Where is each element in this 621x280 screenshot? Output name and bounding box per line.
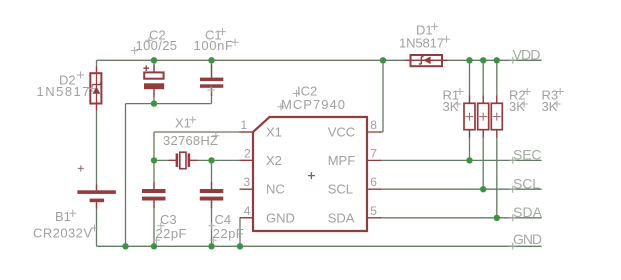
svg-text:3K: 3K bbox=[509, 99, 525, 114]
svg-text:32768HZ: 32768HZ bbox=[163, 133, 218, 148]
svg-text:4: 4 bbox=[244, 204, 251, 218]
svg-text:SCL: SCL bbox=[328, 182, 353, 197]
svg-text:X1: X1 bbox=[175, 116, 191, 131]
svg-text:3K: 3K bbox=[443, 99, 459, 114]
svg-text:8: 8 bbox=[370, 118, 377, 132]
svg-text:CR2032V: CR2032V bbox=[33, 226, 92, 241]
svg-text:SDA: SDA bbox=[328, 210, 355, 225]
svg-text:MCP7940: MCP7940 bbox=[281, 97, 345, 112]
svg-text:X2: X2 bbox=[266, 153, 282, 168]
svg-text:2: 2 bbox=[244, 147, 251, 161]
svg-text:1N5817: 1N5817 bbox=[399, 36, 444, 51]
svg-text:B1: B1 bbox=[55, 209, 71, 224]
svg-text:VDD: VDD bbox=[513, 47, 541, 63]
svg-text:MPF: MPF bbox=[328, 153, 356, 168]
svg-text:6: 6 bbox=[370, 175, 377, 189]
svg-text:3K: 3K bbox=[542, 99, 558, 114]
svg-text:1N5817: 1N5817 bbox=[37, 84, 90, 99]
svg-text:NC: NC bbox=[266, 182, 285, 197]
svg-text:GND: GND bbox=[266, 210, 295, 225]
svg-text:100nF: 100nF bbox=[194, 38, 234, 53]
svg-text:22pF: 22pF bbox=[213, 226, 244, 241]
svg-text:1: 1 bbox=[241, 118, 248, 132]
svg-text:SCL: SCL bbox=[513, 175, 540, 191]
svg-text:100/25: 100/25 bbox=[136, 38, 178, 53]
svg-text:7: 7 bbox=[370, 147, 377, 161]
svg-text:C3: C3 bbox=[160, 212, 177, 227]
svg-text:SEC: SEC bbox=[513, 147, 542, 163]
svg-text:3: 3 bbox=[244, 175, 251, 189]
svg-text:VCC: VCC bbox=[328, 125, 355, 140]
svg-text:C4: C4 bbox=[215, 212, 232, 227]
svg-text:SDA: SDA bbox=[513, 204, 543, 220]
svg-text:GND: GND bbox=[513, 231, 542, 247]
svg-text:X1: X1 bbox=[266, 125, 282, 140]
svg-text:5: 5 bbox=[370, 204, 377, 218]
svg-text:22pF: 22pF bbox=[156, 226, 187, 241]
